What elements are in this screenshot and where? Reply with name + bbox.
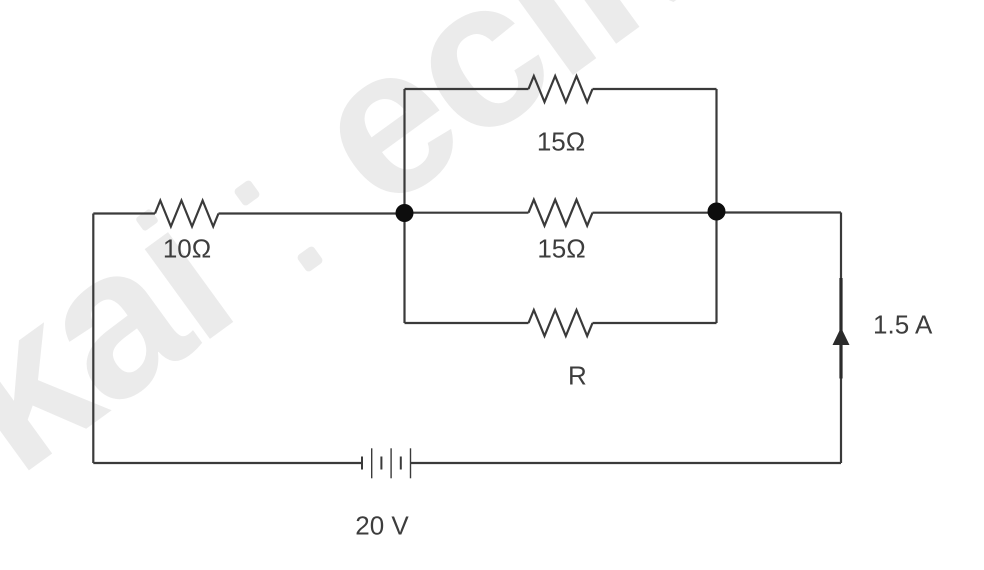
watermark colon dots — [233, 179, 261, 207]
svg-text:kaı ecika: kaı ecika — [0, 0, 817, 515]
top wire right segment — [593, 88, 717, 90]
wire left vertical — [93, 89, 841, 463]
svg-text:15Ω: 15Ω — [537, 234, 585, 264]
svg-text:1.5 A: 1.5 A — [873, 310, 933, 340]
svg-text:15Ω: 15Ω — [537, 127, 585, 157]
wire bottom right to battery — [411, 462, 841, 464]
node B right junction dot — [708, 203, 726, 221]
parallel box left vertical bottom — [403, 213, 405, 323]
watermark text — [0, 0, 817, 515]
resistor R4 R bottom — [529, 310, 593, 336]
svg-text:10Ω: 10Ω — [163, 234, 211, 264]
parallel box right vertical bottom — [715, 213, 717, 324]
parallel box left vertical top — [403, 89, 405, 213]
current arrow 1.5A — [833, 278, 850, 379]
resistor R2 15ohm top — [529, 76, 593, 102]
resistor R3 15ohm middle — [529, 200, 593, 226]
wire 10ohm to left node — [219, 212, 405, 214]
wire middle resistor to right node — [593, 212, 717, 214]
svg-text:20 V: 20 V — [355, 511, 409, 541]
top wire left segment — [405, 88, 529, 90]
parallel box right vertical top — [715, 89, 717, 213]
wire left node to middle resistor — [405, 212, 529, 214]
bottom box wire left segment — [405, 322, 529, 324]
wire right node to right corner — [717, 211, 842, 213]
battery B1 plates — [362, 448, 411, 478]
node A left junction dot — [396, 204, 414, 222]
wire left stub to 10ohm resistor — [93, 212, 155, 214]
resistor R1 10ohm — [155, 201, 218, 227]
svg-text:R: R — [568, 361, 587, 391]
watermark i tittle — [135, 208, 159, 232]
wire right vertical — [840, 213, 842, 464]
wire battery to bottom left — [93, 462, 362, 464]
bottom box wire right segment — [593, 322, 717, 324]
